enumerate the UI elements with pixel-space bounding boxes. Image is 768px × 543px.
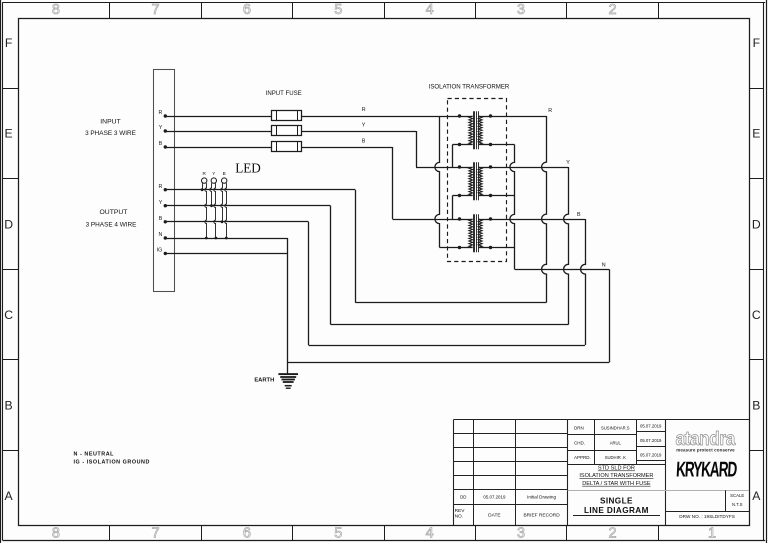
- svg-text:STD SLD FOR: STD SLD FOR: [598, 466, 635, 472]
- svg-text:6: 6: [243, 526, 251, 542]
- note N - NEUTRAL: [74, 452, 115, 458]
- wire secondary Y: T2 top to corner: [491, 167, 569, 169]
- revision row DD: [460, 495, 556, 500]
- wire input B: bus to fuse: [165, 147, 272, 149]
- label INPUT 3 PHASE 3 WIRE: [85, 118, 136, 137]
- LED R: [201, 171, 208, 239]
- svg-text:5: 5: [334, 526, 342, 542]
- svg-text:B: B: [223, 171, 226, 176]
- wire input Y: bus to fuse: [165, 131, 272, 133]
- svg-text:A: A: [5, 489, 14, 503]
- svg-text:Y: Y: [566, 160, 570, 166]
- LED B: [221, 171, 228, 239]
- svg-text:APPRD.: APPRD.: [574, 455, 591, 460]
- bus terminal B @221.8: [159, 216, 167, 224]
- svg-text:DELTA / STAR WITH FUSE: DELTA / STAR WITH FUSE: [582, 481, 651, 487]
- svg-text:Y: Y: [212, 171, 215, 176]
- wire input Y: horizontal to T2 primary top: [416, 167, 460, 169]
- wire star point: T1 secondary bottom to star bus: [491, 144, 515, 146]
- svg-text:LED: LED: [235, 161, 261, 176]
- svg-text:Y: Y: [159, 200, 163, 206]
- wire T2 secondary bottom to star bus: [491, 195, 515, 197]
- svg-text:IG: IG: [157, 248, 163, 254]
- svg-text:N - NEUTRAL: N - NEUTRAL: [74, 452, 115, 458]
- svg-text:CHD.: CHD.: [574, 441, 585, 446]
- transformer T2 (Y phase): [458, 162, 492, 200]
- svg-text:SUSINDHAR.S: SUSINDHAR.S: [601, 425, 630, 430]
- svg-text:7: 7: [151, 2, 159, 18]
- wire neutral N: star bus to corner: [515, 269, 610, 271]
- wire output N from bus: [165, 238, 287, 374]
- svg-text:05.07.2019: 05.07.2019: [640, 424, 662, 429]
- node label B (primary feed): [362, 139, 366, 145]
- wire secondary Y vertical with hops: [564, 167, 569, 325]
- bus terminal IG @253.5: [157, 248, 167, 256]
- transformer T1 (R phase): [458, 111, 492, 149]
- node label R (primary feed): [362, 107, 366, 113]
- svg-text:B: B: [5, 399, 13, 413]
- node label N (secondary): [602, 262, 606, 268]
- approvals row APPRD: [574, 452, 662, 460]
- approvals row DRN: [574, 424, 662, 431]
- input/output distribution bus: [154, 70, 175, 292]
- logo atandra: [675, 427, 736, 452]
- svg-text:5: 5: [334, 2, 342, 18]
- wire secondary R: T1 top to corner: [491, 116, 547, 118]
- gray separator line: [568, 490, 750, 492]
- svg-text:2: 2: [608, 526, 616, 542]
- svg-text:3: 3: [517, 2, 525, 18]
- bus terminal N @238.0: [158, 232, 167, 240]
- wire secondary B vertical with hop: [581, 219, 586, 345]
- svg-text:Y: Y: [362, 123, 366, 129]
- svg-text:E: E: [752, 127, 760, 141]
- ground symbol: [278, 373, 298, 389]
- wire star bus vertical with hops: [510, 145, 515, 270]
- fuse input Y: [272, 126, 302, 136]
- svg-text:REV: REV: [455, 508, 466, 514]
- wire delta return R: vertical with hops: [435, 116, 440, 248]
- wire T1 primary bottom to Y node: [453, 145, 460, 168]
- title block revision table: [454, 420, 568, 526]
- label LED: [235, 161, 261, 176]
- svg-text:SUDHIR .K: SUDHIR .K: [605, 455, 626, 460]
- wire input R: fuse to transformer T1 primary top: [302, 116, 460, 118]
- wire neutral N vertical: [609, 269, 611, 362]
- svg-text:05.07.2019: 05.07.2019: [483, 495, 506, 500]
- svg-text:05.07.2019: 05.07.2019: [640, 452, 662, 457]
- svg-text:KRYKARD: KRYKARD: [675, 457, 737, 481]
- svg-text:1: 1: [708, 526, 716, 542]
- wire input Y: fuse to corner: [302, 131, 416, 133]
- node label Y (secondary): [566, 160, 570, 166]
- svg-text:E: E: [5, 127, 13, 141]
- svg-text:ARUL: ARUL: [610, 441, 622, 446]
- svg-text:DRN: DRN: [574, 425, 584, 430]
- label INPUT FUSE: [266, 90, 302, 97]
- bus terminal B @147.0: [159, 141, 167, 149]
- isolation transformer dashed enclosure: [448, 99, 507, 262]
- svg-text:LINE DIAGRAM: LINE DIAGRAM: [584, 506, 649, 515]
- svg-text:R: R: [158, 110, 162, 116]
- svg-text:DD: DD: [460, 495, 466, 500]
- label OUTPUT 3 PHASE 4 WIRE: [86, 209, 137, 228]
- svg-text:Initial Drawing: Initial Drawing: [527, 495, 556, 500]
- svg-text:D: D: [752, 217, 761, 231]
- wire IG from bus to earth drop: [165, 253, 287, 255]
- title block approvals table: [568, 420, 750, 526]
- svg-text:05.07.2019: 05.07.2019: [640, 438, 662, 443]
- scale box: [665, 490, 749, 511]
- svg-text:R: R: [548, 108, 552, 114]
- node label B (secondary): [577, 212, 581, 218]
- svg-text:N: N: [602, 262, 606, 268]
- revision header row: [455, 508, 561, 520]
- svg-text:3 PHASE 4 WIRE: 3 PHASE 4 WIRE: [86, 221, 137, 228]
- fuse input R: [272, 111, 302, 121]
- label EARTH: [254, 377, 274, 383]
- label ISOLATION TRANSFORMER: [429, 83, 510, 90]
- svg-text:DRW NO. : 19SLDITDYFS: DRW NO. : 19SLDITDYFS: [679, 514, 735, 519]
- fuse input B: [272, 142, 302, 152]
- svg-text:2: 2: [608, 2, 616, 18]
- svg-text:B: B: [159, 141, 163, 147]
- wire delta return R: horizontal to T3 primary bottom: [440, 247, 460, 249]
- svg-text:N: N: [158, 232, 162, 238]
- wire neutral N return run: [288, 362, 609, 364]
- svg-text:N.T.S: N.T.S: [732, 502, 743, 507]
- wire output Y return run: [165, 206, 568, 325]
- wire input B: vertical drop: [392, 147, 394, 219]
- svg-text:SCALE: SCALE: [730, 493, 744, 498]
- svg-text:C: C: [752, 308, 761, 322]
- zone tick marks: [110, 2, 659, 540]
- svg-text:BRIEF RECORD: BRIEF RECORD: [523, 512, 560, 518]
- svg-text:INPUT: INPUT: [100, 118, 120, 125]
- wire T3 secondary bottom to star bus: [491, 247, 515, 249]
- wire output B return run: [165, 222, 585, 346]
- bus terminal R @116.0: [158, 110, 167, 118]
- svg-text:B: B: [752, 399, 760, 413]
- svg-text:6: 6: [243, 2, 251, 18]
- svg-text:B: B: [362, 139, 366, 145]
- LED Y: [210, 171, 218, 239]
- svg-text:4: 4: [426, 526, 434, 542]
- node label Y (primary feed): [362, 123, 366, 129]
- svg-text:ISOLATION TRANSFORMER: ISOLATION TRANSFORMER: [579, 473, 653, 479]
- note IG - ISOLATION GROUND: [74, 459, 150, 465]
- wire secondary B: T3 top to corner: [491, 219, 586, 221]
- logo KRYKARD: [675, 457, 737, 481]
- svg-text:F: F: [5, 36, 12, 50]
- svg-text:ISOLATION TRANSFORMER: ISOLATION TRANSFORMER: [429, 83, 510, 90]
- svg-text:OUTPUT: OUTPUT: [100, 209, 128, 216]
- svg-text:B: B: [159, 216, 163, 222]
- transformer T3 (B phase): [458, 214, 492, 252]
- wire T2 primary bottom to B node: [453, 196, 460, 220]
- node label R (secondary): [548, 108, 552, 114]
- svg-text:IG - ISOLATION GROUND: IG - ISOLATION GROUND: [74, 459, 150, 465]
- svg-text:A: A: [752, 489, 761, 503]
- svg-text:4: 4: [426, 2, 434, 18]
- svg-text:8: 8: [52, 526, 60, 542]
- bus terminal Y @205.7: [159, 200, 167, 208]
- svg-text:8: 8: [52, 2, 60, 18]
- svg-text:INPUT FUSE: INPUT FUSE: [266, 90, 302, 97]
- drawing subject text: [579, 466, 653, 487]
- title SINGLE LINE DIAGRAM: [573, 497, 660, 516]
- svg-text:SINGLE: SINGLE: [600, 497, 633, 506]
- bus terminal R @189.7: [158, 184, 167, 192]
- wire input B: horizontal to T3 primary top: [393, 219, 460, 221]
- svg-text:DATE: DATE: [488, 512, 500, 518]
- svg-text:D: D: [4, 217, 13, 231]
- svg-text:F: F: [753, 36, 760, 50]
- svg-text:3: 3: [517, 526, 525, 542]
- wire input B: fuse to corner: [302, 147, 393, 149]
- svg-text:R: R: [158, 184, 162, 190]
- svg-text:Y: Y: [159, 125, 163, 131]
- svg-text:atandra: atandra: [675, 427, 736, 449]
- approvals row CHD: [574, 438, 662, 446]
- wire output R return run: [165, 190, 546, 303]
- svg-text:C: C: [4, 308, 13, 322]
- drawing number: [679, 514, 735, 519]
- wire input R: bus to fuse: [165, 116, 272, 118]
- svg-text:R: R: [362, 107, 366, 113]
- wire secondary R vertical with hops: [542, 116, 547, 303]
- svg-text:7: 7: [151, 526, 159, 542]
- svg-text:NO.: NO.: [455, 514, 464, 520]
- bus terminal Y @131.0: [159, 125, 167, 133]
- wire input Y: vertical drop: [416, 131, 418, 167]
- svg-text:measure protect conserve: measure protect conserve: [676, 448, 735, 453]
- svg-text:3 PHASE 3 WIRE: 3 PHASE 3 WIRE: [85, 130, 136, 137]
- svg-text:B: B: [577, 212, 581, 218]
- svg-text:EARTH: EARTH: [254, 377, 274, 383]
